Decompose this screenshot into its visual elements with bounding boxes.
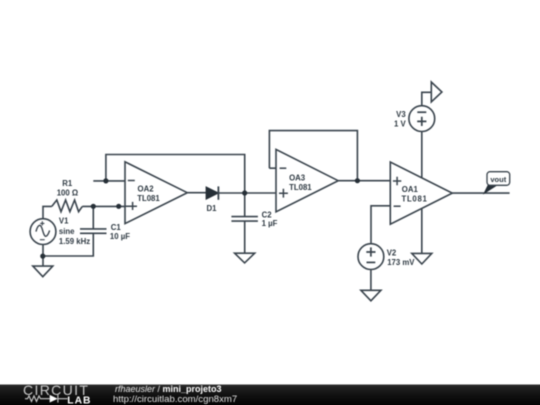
svg-text:rfhaeusler / mini_projeto3: rfhaeusler / mini_projeto3 [115,384,222,394]
svg-text:R1: R1 [62,179,73,188]
svg-text:OA2: OA2 [138,185,155,194]
svg-text:10 µF: 10 µF [110,232,130,241]
svg-text:OA1: OA1 [402,185,419,194]
svg-text:D1: D1 [207,204,218,213]
svg-text:C2: C2 [262,211,273,220]
svg-text:C1: C1 [111,223,122,232]
svg-text:LAB: LAB [67,395,91,405]
svg-text:1.59 kHz: 1.59 kHz [59,237,90,246]
svg-text:OA3: OA3 [289,173,306,182]
svg-text:173 mV: 173 mV [387,258,415,267]
svg-text:TL081: TL081 [402,194,428,203]
svg-text:http://circuitlab.com/cgn8xm7: http://circuitlab.com/cgn8xm7 [113,394,237,405]
svg-text:TL081: TL081 [137,194,160,203]
svg-text:sine: sine [59,227,75,236]
svg-text:vout: vout [490,175,506,184]
svg-text:1 µF: 1 µF [262,219,278,228]
svg-text:V3: V3 [396,110,406,119]
svg-text:100 Ω: 100 Ω [57,188,78,197]
svg-text:V1: V1 [59,216,69,225]
svg-text:1 V: 1 V [394,119,407,128]
svg-text:TL081: TL081 [289,183,312,192]
svg-text:V2: V2 [387,249,397,258]
